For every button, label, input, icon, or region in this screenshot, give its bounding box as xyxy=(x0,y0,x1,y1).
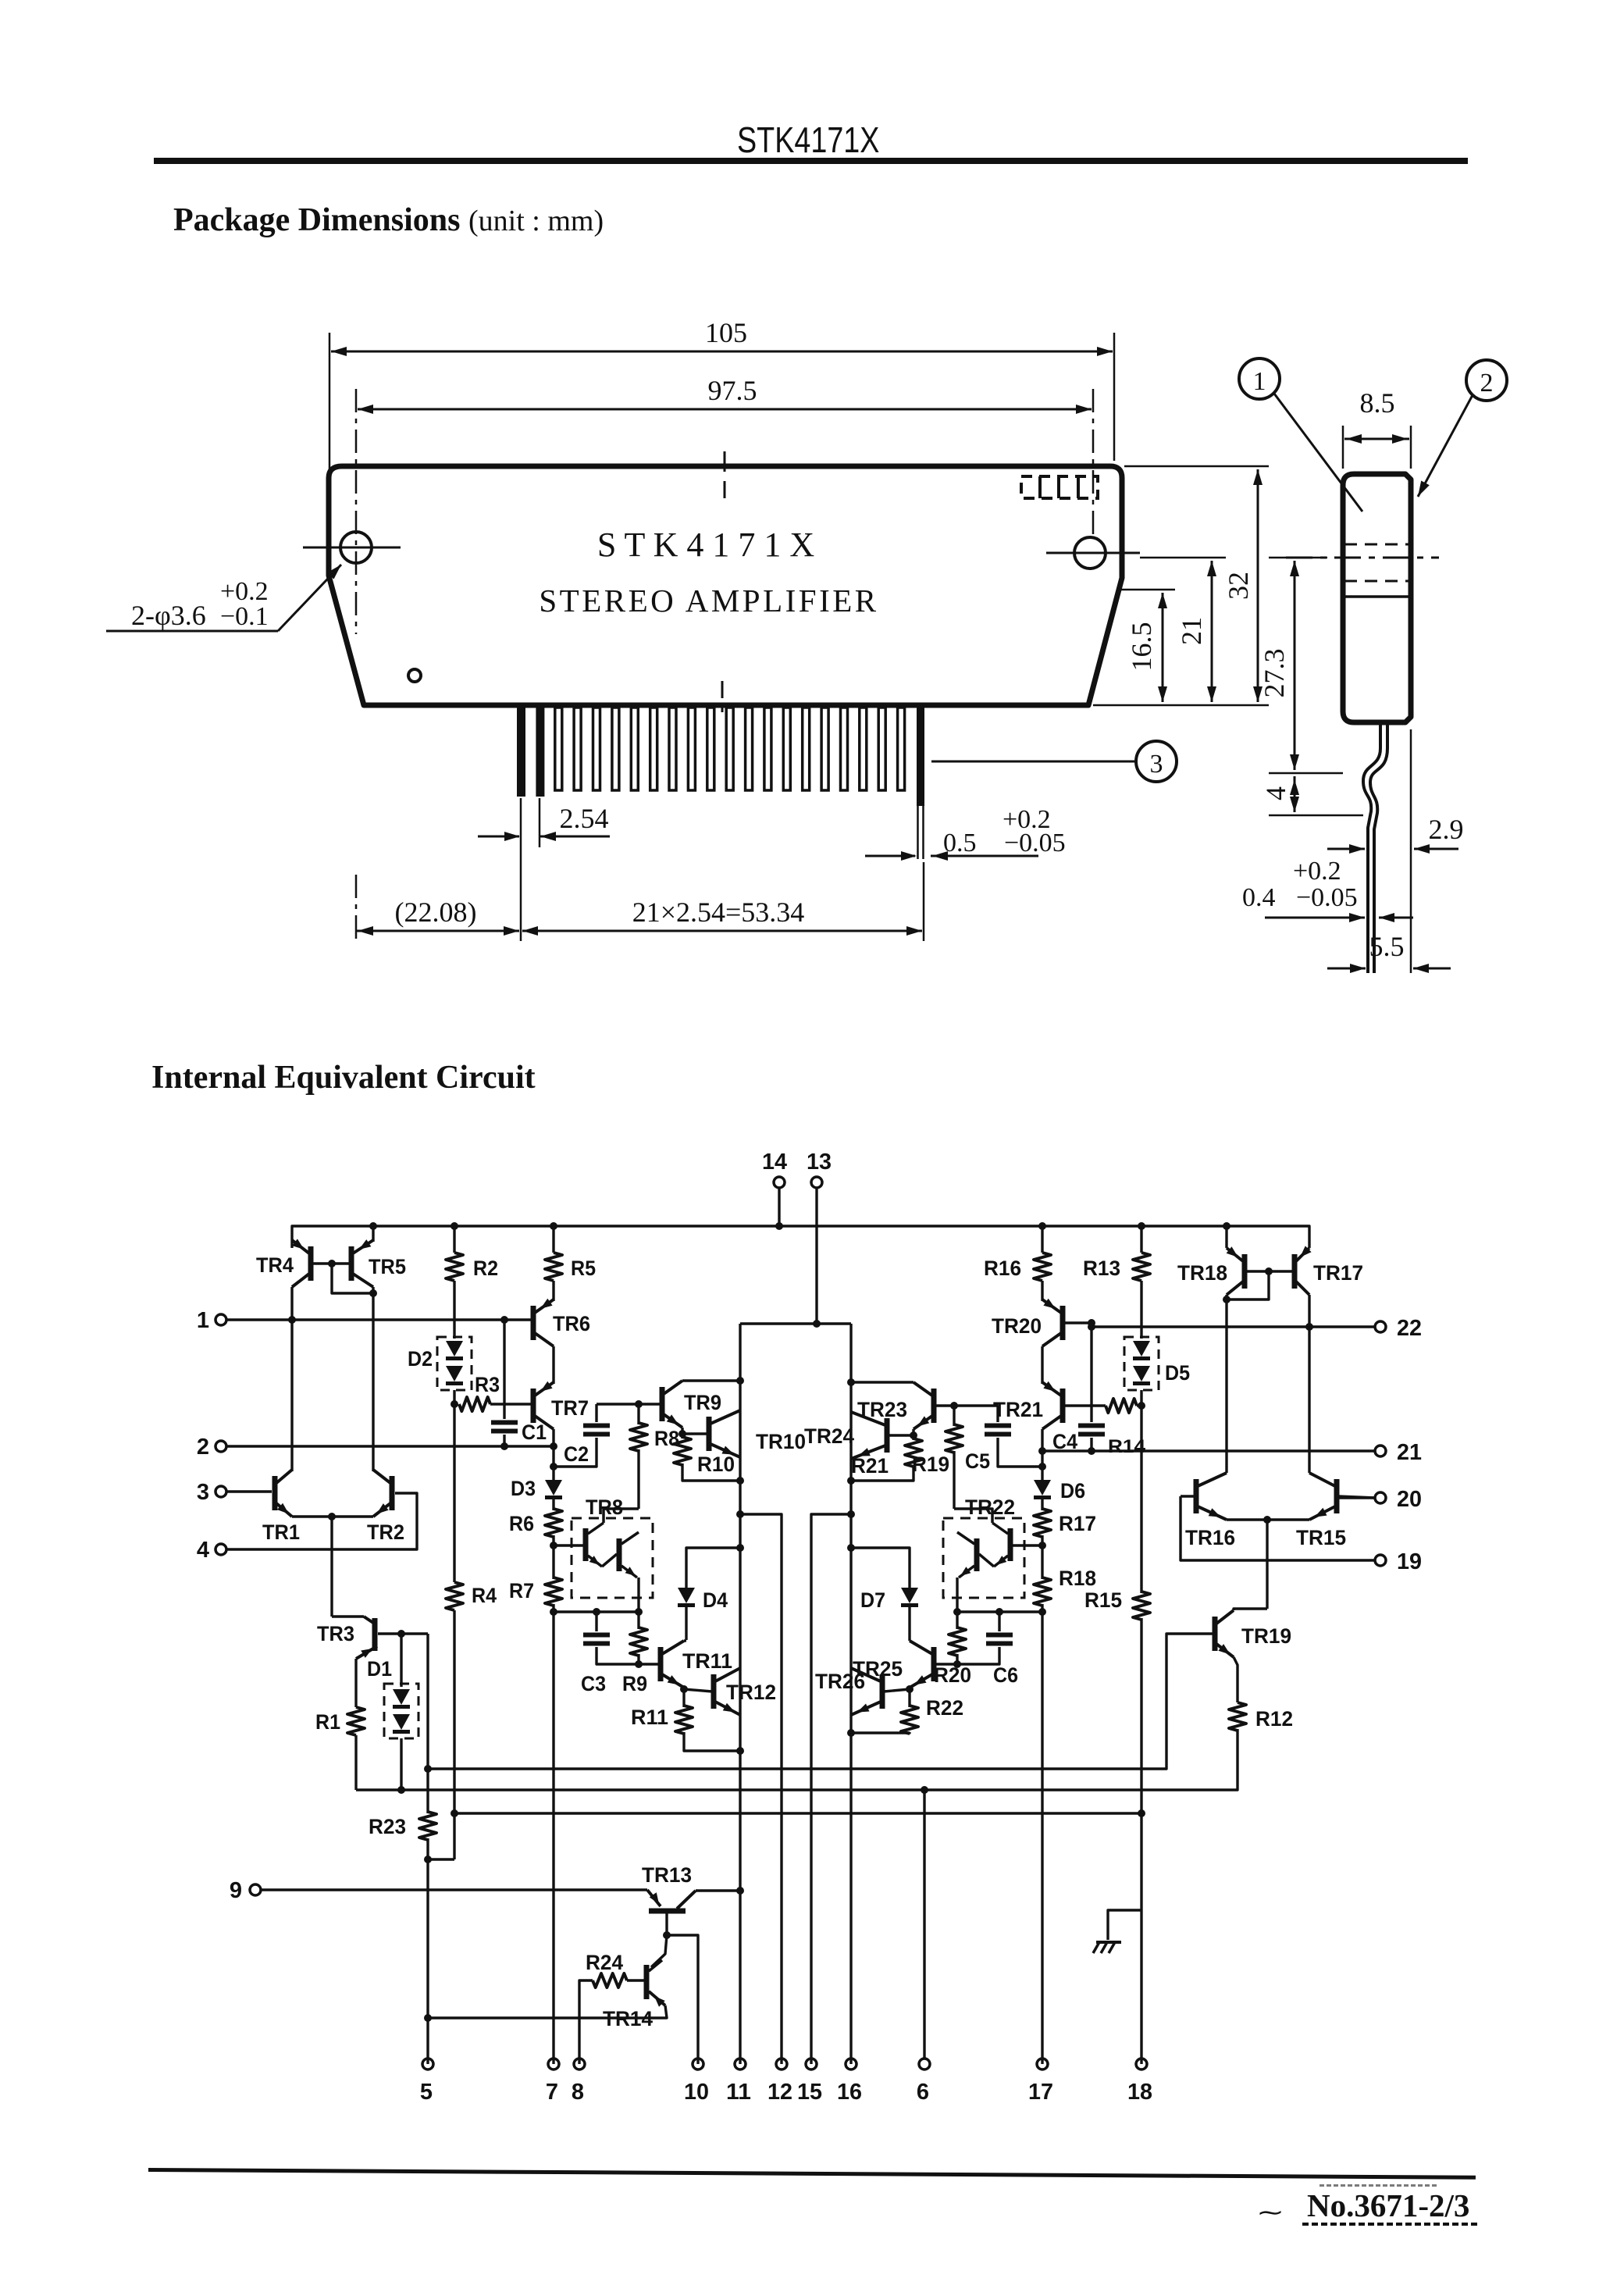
svg-text:TR13: TR13 xyxy=(642,1863,692,1887)
dimension 21 xyxy=(1140,557,1226,559)
resistor R16 xyxy=(1038,1222,1046,1230)
transistor TR26 xyxy=(906,1685,913,1693)
svg-text:9: 9 xyxy=(230,1878,242,1903)
svg-text:16: 16 xyxy=(837,2080,862,2105)
wire TR18/TR17 base tie xyxy=(1245,1270,1295,1272)
svg-text:TR9: TR9 xyxy=(684,1391,721,1414)
diode D3 xyxy=(552,1467,554,1481)
bus wire 3 xyxy=(454,1812,1141,1814)
svg-text:3: 3 xyxy=(197,1480,209,1505)
top centerline dash xyxy=(724,451,726,498)
wire R2 to D2 xyxy=(453,1281,455,1339)
wire TR18 emitter to rail xyxy=(1225,1226,1227,1248)
pin 12 xyxy=(776,2059,787,2069)
transistor TR12 xyxy=(680,1685,688,1693)
resistor R4 xyxy=(453,1404,455,1582)
svg-text:R13: R13 xyxy=(1083,1257,1120,1280)
svg-text:D3: D3 xyxy=(511,1477,536,1500)
svg-text:TR10: TR10 xyxy=(756,1430,806,1453)
resistor R18 xyxy=(1034,1577,1051,1606)
wire TR4/TR5 base tie xyxy=(311,1262,351,1264)
svg-text:R19: R19 xyxy=(912,1453,949,1476)
svg-text:C2: C2 xyxy=(564,1442,589,1466)
svg-text:1: 1 xyxy=(1253,367,1266,396)
wire TR5 collector down to TR2 xyxy=(372,1287,374,1471)
top rule xyxy=(154,158,1468,164)
heading Package Dimensions xyxy=(173,201,604,239)
pin 7 xyxy=(548,2059,559,2069)
svg-text:R17: R17 xyxy=(1059,1512,1096,1535)
mounting hole left xyxy=(340,532,372,563)
wire TR17 collector down through pin 22 xyxy=(1308,1295,1310,1473)
svg-text:TR4: TR4 xyxy=(256,1253,294,1277)
svg-text:R20: R20 xyxy=(934,1663,971,1687)
svg-text:C5: C5 xyxy=(965,1449,990,1473)
dashed mark rectangle top-right xyxy=(1021,476,1098,498)
side view lead with S-bend xyxy=(1363,722,1380,973)
resistor R7 xyxy=(545,1577,562,1606)
svg-text:TR12: TR12 xyxy=(726,1681,776,1704)
transistor TR21 xyxy=(1060,1389,1066,1423)
svg-text:S T K 4 1 7 1 X: S T K 4 1 7 1 X xyxy=(597,526,814,564)
wire TR3 collector down to bus xyxy=(426,1634,429,1769)
svg-text:D7: D7 xyxy=(860,1588,885,1612)
diode D5 (dual, dashed box) xyxy=(1140,1281,1142,1339)
wire TR6 emitter to TR7 xyxy=(552,1346,554,1384)
resistor R6 xyxy=(552,1499,554,1510)
svg-text:17: 17 xyxy=(1028,2080,1053,2105)
svg-text:27.3: 27.3 xyxy=(1259,649,1290,698)
svg-text:R22: R22 xyxy=(926,1696,963,1720)
transistor TR5 xyxy=(349,1246,354,1281)
resistor R12 xyxy=(1234,1657,1238,1702)
wire center top link xyxy=(740,1322,851,1324)
svg-text:C1: C1 xyxy=(522,1421,547,1444)
svg-text:(22.08): (22.08) xyxy=(395,897,477,928)
pin 20 xyxy=(1338,1496,1375,1499)
wire TR4 collector down to TR1 xyxy=(290,1287,293,1471)
transistor TR7 xyxy=(531,1389,536,1423)
wire TR5 emitter to rail xyxy=(372,1226,374,1242)
dimension 105 xyxy=(329,333,331,543)
resistor R10 xyxy=(681,1428,683,1438)
resistor R11 xyxy=(682,1689,685,1707)
svg-text:R7: R7 xyxy=(509,1579,534,1602)
transistor TR15 xyxy=(1334,1479,1340,1513)
transistor TR20 xyxy=(1041,1281,1043,1301)
svg-text:R12: R12 xyxy=(1255,1707,1293,1731)
svg-text:12: 12 xyxy=(767,2080,792,2105)
resistor R23 xyxy=(424,1765,432,1773)
footer page number No.3671-2/3 xyxy=(1307,2187,1469,2224)
svg-text:18: 18 xyxy=(1127,2080,1152,2105)
transistor TR14 xyxy=(651,1935,667,1967)
pin 22 xyxy=(1092,1325,1375,1328)
svg-text:105: 105 xyxy=(705,317,747,348)
pin 11 xyxy=(735,2059,746,2069)
transistor TR3 xyxy=(332,1615,364,1617)
wire TR18 collector to TR16 xyxy=(1225,1295,1227,1473)
svg-text:STEREO AMPLIFIER: STEREO AMPLIFIER xyxy=(539,583,878,619)
svg-text:4: 4 xyxy=(197,1538,209,1563)
svg-text:3: 3 xyxy=(1150,750,1163,779)
heading Internal Equivalent Circuit xyxy=(151,1059,536,1096)
capacitor C1 xyxy=(503,1320,505,1419)
resistor R19 xyxy=(953,1406,955,1426)
bus wire 2 xyxy=(356,1732,1238,1790)
capacitor C4 xyxy=(1090,1323,1092,1422)
pin 6 xyxy=(919,2059,930,2069)
dimension 32 xyxy=(1124,465,1269,468)
pin 5 xyxy=(422,2059,433,2069)
transistor TR6 xyxy=(552,1281,554,1301)
wire TR20 emitter to TR21 xyxy=(1041,1346,1043,1384)
svg-text:8.5: 8.5 xyxy=(1360,387,1395,419)
svg-text:21: 21 xyxy=(1176,617,1207,645)
svg-text:R5: R5 xyxy=(571,1257,596,1280)
transistor TR24 xyxy=(889,1434,913,1436)
resistor R13 xyxy=(1138,1222,1145,1230)
svg-text:10: 10 xyxy=(684,2080,709,2105)
svg-text:TR3: TR3 xyxy=(317,1622,354,1645)
svg-text:0.4: 0.4 xyxy=(1242,883,1276,912)
transistor TR1 xyxy=(272,1476,278,1510)
svg-text:−0.05: −0.05 xyxy=(1004,829,1066,857)
resistor R17 xyxy=(1041,1499,1043,1510)
resistor R21 xyxy=(912,1429,914,1440)
svg-text:15: 15 xyxy=(797,2080,822,2105)
capacitor C6 xyxy=(998,1612,1000,1631)
resistor R22 xyxy=(908,1689,910,1707)
package dimension drawing xyxy=(106,317,1507,973)
svg-text:TR11: TR11 xyxy=(682,1649,732,1673)
svg-text:TR19: TR19 xyxy=(1241,1624,1291,1648)
pin 15 xyxy=(806,2059,817,2069)
svg-text:TR26: TR26 xyxy=(815,1670,865,1693)
mounting hole right xyxy=(1074,537,1106,569)
pin 16 xyxy=(846,2059,857,2069)
svg-text:D1: D1 xyxy=(367,1657,392,1681)
wire to pin 12 xyxy=(740,1514,782,2064)
svg-text:0.5: 0.5 xyxy=(943,829,977,857)
wire pin 6 lead xyxy=(923,1790,925,2059)
dimension 4 xyxy=(1294,776,1296,812)
svg-text:R10: R10 xyxy=(697,1453,735,1476)
svg-text:TR22: TR22 xyxy=(965,1495,1015,1519)
svg-text:TR6: TR6 xyxy=(553,1312,590,1335)
wire pin 5 lead xyxy=(426,1859,429,2064)
wire R20/C6 top row xyxy=(957,1610,1042,1613)
svg-text:20: 20 xyxy=(1397,1487,1422,1512)
svg-text:21×2.54=53.34: 21×2.54=53.34 xyxy=(632,897,805,928)
svg-text:11: 11 xyxy=(726,2080,751,2105)
capacitor C2 xyxy=(595,1404,597,1422)
svg-text:19: 19 xyxy=(1397,1549,1422,1574)
svg-text:14: 14 xyxy=(762,1150,787,1175)
transistor TR18 xyxy=(1242,1254,1248,1289)
svg-text:TR20: TR20 xyxy=(992,1314,1042,1338)
dimension 2.54 xyxy=(478,836,519,838)
lead callout circle 3 xyxy=(931,761,1137,763)
svg-text:TR7: TR7 xyxy=(551,1396,589,1420)
resistor R15 xyxy=(1140,1406,1142,1593)
transistor TR4 xyxy=(308,1246,314,1281)
resistor R8 xyxy=(637,1404,639,1424)
side view internal dashed lines xyxy=(1344,544,1409,546)
svg-text:6: 6 xyxy=(917,2080,929,2105)
svg-text:R15: R15 xyxy=(1084,1588,1122,1612)
svg-text:8: 8 xyxy=(572,2080,584,2105)
svg-text:21: 21 xyxy=(1397,1440,1422,1465)
svg-text:D2: D2 xyxy=(408,1347,433,1371)
svg-text:−0.1: −0.1 xyxy=(220,602,269,631)
resistor R9 xyxy=(637,1612,639,1629)
side view body outline xyxy=(1343,474,1411,722)
resistor R5 xyxy=(550,1222,557,1230)
pin 2 center extension line xyxy=(539,798,541,847)
svg-text:R23: R23 xyxy=(369,1815,406,1838)
transistor TR2 xyxy=(390,1476,395,1510)
internal equivalent circuit schematic xyxy=(197,1150,1422,2105)
transistor TR25 xyxy=(935,1663,957,1665)
wire TR23 base xyxy=(936,1404,998,1406)
svg-text:TR18: TR18 xyxy=(1177,1261,1227,1285)
dimension 8.5 xyxy=(1342,426,1344,469)
transistor TR11 xyxy=(639,1663,659,1665)
svg-text:R2: R2 xyxy=(473,1257,498,1280)
pin 19 xyxy=(1181,1496,1375,1560)
capacitor C3 xyxy=(595,1612,597,1631)
bottom centerline dash xyxy=(721,681,724,712)
svg-text:32: 32 xyxy=(1223,572,1254,600)
svg-text:R6: R6 xyxy=(509,1512,534,1535)
svg-text:1: 1 xyxy=(197,1308,209,1333)
svg-text:TR1: TR1 xyxy=(262,1520,300,1544)
svg-text:C6: C6 xyxy=(993,1663,1018,1687)
dimension 16.5 xyxy=(1116,589,1175,591)
callout circle 1 xyxy=(1239,358,1280,399)
svg-text:R11: R11 xyxy=(631,1706,668,1729)
wire TR7 emitter node xyxy=(552,1429,554,1467)
wire TR9 collector xyxy=(682,1379,740,1381)
svg-text:TR24: TR24 xyxy=(804,1424,854,1448)
wire center-left rail (to pin 11) xyxy=(739,1324,741,2064)
diode D4 xyxy=(686,1548,740,1588)
wire pin 10 lead xyxy=(667,1935,698,2064)
wire TR11 collector to D4 xyxy=(684,1639,686,1642)
pin 21 xyxy=(1042,1449,1375,1452)
svg-text:R16: R16 xyxy=(984,1257,1021,1280)
svg-text:TR14: TR14 xyxy=(603,2007,653,2030)
svg-text:R1: R1 xyxy=(315,1710,340,1734)
dimension 2.9 xyxy=(1410,729,1412,973)
svg-text:R3: R3 xyxy=(475,1373,500,1396)
pin 22 center extension line xyxy=(923,862,925,941)
transistor TR23 xyxy=(931,1389,937,1423)
wire to pin 15 xyxy=(811,1514,851,2064)
wire TR1/TR2 emitter junction xyxy=(292,1515,373,1517)
pin 17 xyxy=(1037,2059,1048,2069)
ground symbol xyxy=(1096,1941,1121,1944)
dimension 21x2.54=53.34 xyxy=(522,930,922,932)
svg-text:2-φ3.6: 2-φ3.6 xyxy=(131,600,206,631)
transistor TR10 xyxy=(682,1432,707,1435)
transistor TR16 xyxy=(1181,1495,1195,1497)
dimension (22.08) xyxy=(355,875,358,941)
diode D6 xyxy=(1041,1467,1043,1481)
svg-text:97.5: 97.5 xyxy=(708,375,757,406)
pin 1 center extension line xyxy=(520,798,522,941)
svg-text:TR17: TR17 xyxy=(1313,1261,1363,1285)
side view horizontal centerline xyxy=(1286,557,1439,559)
wire TR9 base xyxy=(597,1403,660,1405)
svg-text:TR16: TR16 xyxy=(1185,1526,1235,1549)
callout circle 2 xyxy=(1466,360,1507,401)
svg-text:2.9: 2.9 xyxy=(1429,814,1464,845)
svg-text:−0.05: −0.05 xyxy=(1296,883,1358,912)
bus wire 1 xyxy=(428,1634,1212,1769)
svg-text:5.5: 5.5 xyxy=(1369,931,1405,962)
svg-text:TR2: TR2 xyxy=(367,1520,404,1544)
svg-text:TR5: TR5 xyxy=(369,1255,406,1278)
svg-text:13: 13 xyxy=(807,1150,832,1175)
dimension 97.5 xyxy=(355,389,358,634)
resistor R3 xyxy=(459,1397,490,1411)
svg-text:D5: D5 xyxy=(1165,1361,1190,1385)
index hole small circle xyxy=(408,669,421,682)
wire C3/R9 top row xyxy=(554,1610,639,1613)
transistor TR9 xyxy=(660,1387,665,1421)
wire top supply rail xyxy=(292,1226,1309,1248)
svg-text:R24: R24 xyxy=(586,1951,623,1974)
resistor R2 xyxy=(451,1222,458,1230)
svg-text:2: 2 xyxy=(1480,369,1494,397)
dimension 0.5 +0.2 -0.05 xyxy=(865,855,915,857)
transistor TR19 xyxy=(1234,1609,1267,1610)
svg-text:7: 7 xyxy=(546,2080,558,2105)
wire center-right rail (to pin 16) xyxy=(849,1324,852,2064)
svg-text:C3: C3 xyxy=(581,1672,606,1695)
svg-text:TR15: TR15 xyxy=(1296,1526,1346,1549)
svg-text:R9: R9 xyxy=(622,1672,647,1695)
resistor R14 xyxy=(1106,1399,1137,1413)
svg-text:2: 2 xyxy=(197,1435,209,1460)
pin 18 xyxy=(1136,2059,1147,2069)
svg-text:4: 4 xyxy=(1260,786,1291,800)
footer rule xyxy=(148,2168,1476,2180)
transistor TR17 xyxy=(1292,1254,1298,1289)
pin 8 xyxy=(574,2059,585,2069)
wire TR16/TR15 emitter junction xyxy=(1227,1518,1309,1520)
svg-text:R18: R18 xyxy=(1059,1567,1096,1590)
pin comb of 22 leads xyxy=(517,708,525,797)
wire TR23 collector xyxy=(851,1381,913,1383)
wire pin 18 lead and ground branch xyxy=(1108,1910,1141,1940)
svg-text:2.54: 2.54 xyxy=(560,803,609,834)
svg-text:16.5: 16.5 xyxy=(1126,622,1157,672)
package body outline xyxy=(329,466,1122,705)
svg-text:D4: D4 xyxy=(703,1588,728,1612)
resistor R20 xyxy=(956,1612,958,1629)
svg-text:+0.2: +0.2 xyxy=(1293,857,1341,886)
page title STK4171X xyxy=(737,119,879,161)
wire TR21 emitter node xyxy=(1041,1429,1043,1467)
diode D7 xyxy=(851,1548,910,1588)
svg-text:22: 22 xyxy=(1397,1316,1422,1341)
svg-text:R4: R4 xyxy=(472,1584,497,1607)
svg-text:TR21: TR21 xyxy=(993,1398,1043,1421)
svg-text:R8: R8 xyxy=(654,1427,679,1450)
pin 10 xyxy=(693,2059,703,2069)
capacitor C5 xyxy=(996,1406,999,1422)
svg-text:D6: D6 xyxy=(1060,1479,1085,1503)
resistor R1 xyxy=(354,1659,357,1707)
wire TR19 base from bus 1 xyxy=(1212,1632,1215,1635)
dimension 27.3 xyxy=(1294,561,1296,770)
svg-text:5: 5 xyxy=(420,2080,433,2105)
